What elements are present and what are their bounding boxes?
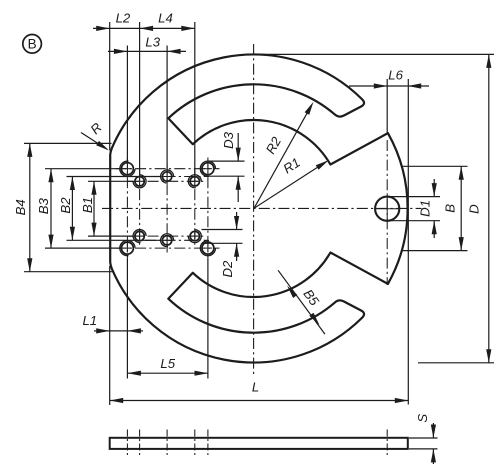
hole bottom-middle: [162, 236, 171, 245]
center line hole row y=236.1: [128, 235, 207, 237]
svg-text:S: S: [415, 414, 430, 423]
hole top-middle: [162, 172, 171, 181]
svg-text:L3: L3: [145, 35, 160, 50]
dimension S: [409, 437, 438, 439]
svg-text:L: L: [252, 380, 259, 395]
dimension D3: [209, 160, 245, 162]
svg-text:L5: L5: [160, 356, 175, 371]
horizontal center line: [102, 207, 422, 209]
dimension B2: [67, 176, 161, 178]
extension line left edge top: [109, 22, 111, 151]
side view center line x=207.9: [207, 430, 209, 458]
hole bottom-right outer (washer): [202, 242, 214, 254]
center line hole column x=207.9: [207, 158, 209, 260]
svg-text:B: B: [442, 204, 457, 213]
dimension B: [403, 165, 468, 167]
hole bottom-right inner: [190, 231, 199, 240]
side view plate section: [110, 438, 408, 449]
hole D1: [375, 197, 399, 221]
center line hole column x=194.8: [194, 170, 196, 248]
center line hole row y=168.7: [116, 168, 220, 170]
center line hole column x=127: [126, 158, 128, 260]
svg-text:B4: B4: [13, 199, 28, 215]
dimension B4: [24, 142, 112, 144]
vertical center line: [253, 44, 255, 374]
hole bottom-left inner: [135, 231, 144, 240]
plate outline with curved slots: [110, 55, 407, 363]
dimension L4: [181, 26, 195, 31]
extension line tab peak: [386, 79, 388, 133]
dimension L1: [94, 330, 110, 332]
svg-text:B: B: [28, 37, 37, 52]
dimension D1: [389, 196, 440, 198]
svg-text:L2: L2: [116, 11, 131, 26]
svg-text:L4: L4: [158, 11, 173, 26]
svg-text:R2: R2: [263, 134, 285, 157]
center line hole column x=139.6: [139, 170, 141, 248]
dimension B5: [278, 270, 325, 334]
svg-text:R1: R1: [280, 155, 302, 177]
side view center line x=139.6: [139, 430, 141, 458]
svg-text:R: R: [87, 119, 105, 137]
center line hole row y=181.3: [128, 180, 207, 182]
extension line col5 bottom: [207, 259, 209, 379]
center line hole D1 axis: [386, 140, 388, 285]
svg-text:B3: B3: [36, 197, 51, 214]
side view center line x=194.8: [194, 430, 196, 458]
dimension L: [110, 400, 409, 402]
dimension L6: [349, 85, 387, 87]
dimension B3: [45, 168, 120, 170]
center line hole column x=167.1: [166, 165, 168, 253]
hole top-right outer (washer): [202, 163, 214, 175]
extension line right extreme: [407, 79, 409, 405]
hole top-left outer (washer): [121, 163, 133, 175]
hole bottom-left outer (washer): [121, 242, 133, 254]
dimension D2: [202, 229, 243, 231]
svg-text:L6: L6: [388, 67, 403, 82]
center line hole row y=176.5: [145, 176, 208, 178]
hole top-right inner: [190, 177, 199, 186]
extension line col4 top: [194, 22, 196, 175]
extension line left edge bottom: [109, 266, 111, 405]
side view center line x=387.2: [386, 430, 388, 458]
dimension L2: [93, 27, 195, 29]
svg-text:D2: D2: [220, 260, 235, 278]
dimension L3: [108, 50, 186, 52]
extension line col2 top: [139, 22, 141, 175]
side view center line x=167.1: [166, 430, 168, 458]
svg-text:L1: L1: [82, 313, 97, 328]
dimension B1: [88, 180, 133, 182]
extension line col3 top: [166, 46, 168, 171]
svg-text:B1: B1: [80, 197, 95, 213]
extension line col1 bottom: [126, 259, 128, 379]
center line hole row y=248.1: [116, 247, 220, 249]
hole top-left inner: [135, 177, 144, 186]
view label circled B: [23, 35, 42, 54]
dimension L5: [127, 372, 208, 374]
svg-text:D1: D1: [417, 200, 432, 217]
svg-text:D3: D3: [221, 131, 236, 149]
center line hole row y=240.3: [145, 239, 208, 241]
radius R2 leader: [254, 105, 312, 208]
dimension D: [256, 53, 494, 55]
extension line col1 top: [126, 46, 128, 162]
radius R1 leader: [254, 162, 327, 209]
leader R corner radius: [81, 133, 107, 150]
side view center line x=127.4: [126, 430, 128, 458]
svg-text:B2: B2: [58, 197, 73, 214]
svg-text:D: D: [467, 204, 482, 214]
